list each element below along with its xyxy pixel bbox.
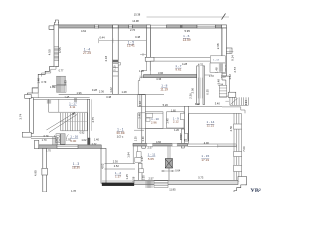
middle wall line y94.3 — [59, 93, 146, 95]
svg-text:УВ²: УВ² — [250, 188, 261, 193]
svg-text:1.37: 1.37 — [115, 175, 121, 179]
dim line 0.44/0.48 — [99, 40, 146, 42]
stair north wall thin double — [33, 97, 89, 99]
svg-text:4.18: 4.18 — [104, 55, 108, 61]
svg-text:2.68: 2.68 — [216, 43, 220, 49]
bathroom 1-10 box — [145, 112, 163, 129]
right wall step out — [222, 76, 229, 96]
bottom wall thin line above — [102, 180, 134, 182]
balcony rail lines — [233, 113, 235, 181]
stair treads — [61, 113, 90, 131]
svg-text:1.84: 1.84 — [127, 152, 131, 158]
svg-text:0.56: 0.56 — [179, 134, 183, 140]
small room 1-13 box — [210, 56, 225, 63]
svg-text:4.62: 4.62 — [81, 29, 87, 33]
wall x184.5 vertical — [185, 106, 189, 141]
door hatch band 1-16 — [60, 134, 65, 145]
svg-text:1.70: 1.70 — [42, 139, 47, 142]
svg-text:1.62: 1.62 — [109, 87, 113, 93]
svg-text:4.02: 4.02 — [100, 163, 104, 169]
duct room above bathrooms — [138, 94, 164, 96]
svg-text:4.00: 4.00 — [204, 141, 210, 145]
svg-text:4.28: 4.28 — [182, 62, 188, 66]
window 2 in top wall (room 1-5) — [128, 25, 132, 28]
corridor north line y106.3 — [138, 106, 222, 108]
wall 1-14 south double line — [188, 143, 237, 145]
svg-text:0.77: 0.77 — [59, 70, 64, 73]
interior wall VW2 — [146, 28, 150, 57]
pilaster on step — [32, 88, 38, 93]
svg-text:2.96: 2.96 — [151, 121, 157, 125]
zigzag wall below W3 — [138, 78, 143, 95]
svg-text:3.48: 3.48 — [106, 95, 112, 99]
west wall room 1-3 — [43, 148, 47, 192]
wall junction tick — [180, 25, 182, 28]
svg-text:3.00: 3.00 — [70, 139, 76, 143]
interior wall VW1 room1-4/1-5 — [113, 28, 119, 94]
svg-text:0.64: 0.64 — [175, 170, 180, 173]
stair west wall — [29, 98, 33, 134]
svg-text:1/2 c: 1/2 c — [117, 135, 124, 139]
hatch band above wall — [53, 137, 58, 145]
svg-text:1.45: 1.45 — [166, 118, 170, 124]
interior wall W3 gray band — [144, 75, 197, 78]
exterior wall top segment F — [182, 25, 197, 28]
exterior wall top segment C — [118, 25, 128, 28]
room 1-6 inner box lines — [150, 27, 221, 29]
stair NW pilaster — [25, 95, 32, 99]
window gap in south wall — [57, 145, 78, 149]
svg-text:4.55: 4.55 — [58, 47, 62, 53]
svg-text:1.48: 1.48 — [36, 78, 40, 84]
room 1-2 north double wall — [105, 163, 136, 165]
wall below VW2 foot — [146, 61, 148, 70]
svg-text:4.32: 4.32 — [198, 63, 204, 67]
center wall x101-106 — [101, 148, 106, 183]
corridor line continues right — [222, 106, 241, 108]
svg-text:18.30: 18.30 — [72, 166, 80, 170]
entrance hatch left — [146, 181, 152, 188]
room 1-2 east wall — [139, 163, 143, 181]
fixture box with circles — [56, 134, 60, 143]
interior wall junction VW1 head — [113, 25, 119, 28]
svg-text:5.73: 5.73 — [198, 176, 204, 180]
svg-text:27.25: 27.25 — [83, 51, 91, 55]
corridor west wall x141.8 — [142, 94, 146, 148]
pilaster west end — [35, 140, 39, 148]
svg-text:5.95: 5.95 — [184, 29, 190, 33]
window box in west wall — [42, 168, 48, 175]
stair bottom edge line — [61, 130, 90, 132]
svg-text:2.57: 2.57 — [148, 177, 154, 181]
svg-text:11.21: 11.21 — [207, 124, 215, 128]
svg-text:2.57: 2.57 — [147, 145, 153, 149]
svg-text:1.96: 1.96 — [76, 91, 82, 95]
svg-text:1.28: 1.28 — [121, 90, 127, 94]
corridor south line y128.5 — [145, 128, 184, 130]
dim arrow entry — [225, 100, 229, 102]
window hatch in left wall — [54, 47, 58, 61]
svg-text:4.75: 4.75 — [91, 117, 95, 123]
balcony crossbox 2 — [234, 152, 242, 157]
svg-text:7.06: 7.06 — [242, 146, 246, 152]
svg-text:1.55: 1.55 — [141, 175, 145, 181]
stair SW pilaster — [22, 132, 31, 137]
VW1 dark lintel block — [113, 60, 119, 62]
svg-text:4.90: 4.90 — [34, 170, 38, 176]
svg-text:2.52: 2.52 — [114, 164, 120, 168]
svg-text:13.41: 13.41 — [127, 44, 135, 48]
top wall opening with inner line — [150, 24, 166, 26]
dim tick vertical small — [37, 81, 39, 98]
room 1-17 south line — [49, 111, 90, 113]
lines joining vents — [52, 84, 57, 86]
svg-text:4.50: 4.50 — [48, 49, 52, 55]
exterior wall top segment B — [99, 25, 113, 28]
svg-text:1 - 11: 1 - 11 — [148, 152, 156, 156]
shaft left wall — [197, 66, 199, 105]
svg-text:1.02: 1.02 — [81, 138, 87, 142]
svg-text:9.61: 9.61 — [175, 67, 181, 71]
line below bath box — [134, 129, 144, 131]
dim tick right wall — [226, 51, 233, 53]
svg-text:0.92: 0.92 — [80, 132, 85, 135]
svg-text:9.14: 9.14 — [231, 55, 235, 61]
small boxes on strip — [181, 113, 185, 120]
svg-text:5.20: 5.20 — [163, 103, 169, 107]
svg-text:1.18: 1.18 — [138, 101, 142, 107]
svg-text:2.36: 2.36 — [99, 90, 105, 94]
dim line y17 long — [147, 16, 230, 18]
dim line top of balcony — [218, 145, 237, 147]
window 3 band top wall — [197, 25, 216, 28]
entrance steps lines — [154, 181, 168, 188]
VW1 side notch — [118, 63, 120, 66]
entry stair treads top right — [230, 97, 248, 105]
svg-text:5.10: 5.10 — [112, 65, 116, 71]
stepped wall inner line — [42, 66, 59, 76]
wall room1-6 south thin double — [154, 57, 222, 59]
bottom wall right step end — [238, 177, 247, 185]
balcony crossbox 3 — [234, 165, 242, 171]
window in top wall (room 1-4) — [94, 25, 98, 28]
vent band 2 hatched — [57, 85, 67, 92]
svg-text:3.74: 3.74 — [18, 113, 22, 119]
svg-text:1.78: 1.78 — [71, 190, 76, 192]
svg-text:3.45: 3.45 — [138, 113, 142, 119]
svg-text:2.76: 2.76 — [130, 28, 136, 32]
shaft right wall — [203, 66, 205, 105]
svg-text:1.72: 1.72 — [209, 75, 214, 78]
svg-text:2.06: 2.06 — [190, 87, 194, 93]
svg-text:4.94: 4.94 — [244, 100, 248, 106]
fixture in 1-10 — [146, 113, 153, 117]
svg-text:1.26: 1.26 — [174, 129, 179, 132]
balcony crossbox 1 — [234, 124, 242, 129]
svg-text:2.18: 2.18 — [221, 76, 226, 79]
interior wall junction VW2 head — [146, 25, 150, 28]
room 1-14 outline — [188, 113, 241, 144]
left exterior wall of room 1-4 — [54, 25, 59, 67]
bottom wall thick black — [102, 183, 134, 186]
svg-text:1.35: 1.35 — [135, 136, 138, 141]
hatch band in box2 — [219, 64, 222, 72]
door swing mark — [67, 134, 69, 138]
svg-text:1.25: 1.25 — [125, 174, 129, 180]
wall x181.3 short — [181, 129, 184, 148]
svg-text:0.79: 0.79 — [41, 81, 46, 84]
svg-text:1.92: 1.92 — [66, 138, 72, 142]
bathroom 1-9 box — [167, 112, 185, 128]
right exterior wall upper — [222, 28, 226, 76]
svg-text:2.30: 2.30 — [113, 159, 119, 163]
vent shaft crosshatch box — [165, 159, 172, 168]
svg-text:3.48: 3.48 — [195, 103, 200, 106]
svg-text:4.36: 4.36 — [156, 77, 162, 81]
small room box 2 — [210, 63, 225, 72]
exterior wall top segment E — [167, 25, 181, 28]
stepped wall to stair block — [28, 66, 54, 97]
svg-text:0.48: 0.48 — [135, 35, 141, 39]
svg-text:0.44: 0.44 — [99, 35, 105, 39]
wall between 1-11 and 1-15 — [167, 146, 169, 159]
entry steps bottom right — [234, 185, 247, 192]
stair south wall double — [31, 136, 56, 138]
line right of shaft y75 — [205, 74, 213, 76]
corner box at VW2 foot — [145, 57, 154, 61]
exterior wall top segment G — [216, 25, 222, 28]
svg-text:3.96: 3.96 — [158, 71, 164, 75]
svg-text:1.48: 1.48 — [214, 67, 218, 73]
VW1 window rungs — [113, 63, 118, 76]
svg-text:2.36: 2.36 — [189, 93, 193, 99]
room 1-17 west wall — [48, 99, 50, 112]
small steps box right — [219, 85, 226, 97]
stair east wall dark part — [88, 138, 90, 144]
window hatch right wall — [222, 66, 226, 74]
pilaster right wall top — [226, 48, 232, 53]
stair diagonal arrow — [47, 113, 76, 131]
svg-text:1 - 13: 1 - 13 — [213, 59, 219, 61]
top-left corner pilaster — [49, 20, 59, 29]
wall south of 1-16 band — [39, 145, 101, 149]
exterior wall top segment A — [59, 25, 95, 28]
wall south of corridor gray — [133, 143, 188, 146]
svg-text:3.40: 3.40 — [215, 102, 221, 106]
svg-text:0.55: 0.55 — [205, 89, 209, 95]
stair east wall — [88, 99, 90, 144]
bath zigzag wall — [132, 146, 134, 164]
top-right corner block — [222, 25, 227, 28]
svg-text:2.50: 2.50 — [229, 125, 233, 131]
svg-text:4.11: 4.11 — [70, 105, 76, 109]
door box on east wall — [139, 169, 144, 173]
svg-text:17.19: 17.19 — [201, 158, 209, 162]
dim 0.64 with arrows — [161, 170, 175, 172]
svg-text:15.38: 15.38 — [134, 13, 141, 17]
svg-text:2.57: 2.57 — [233, 67, 237, 73]
vent band 1 hatched — [57, 76, 66, 85]
svg-text:2.12: 2.12 — [173, 120, 179, 124]
chimney box above stairs — [228, 92, 236, 97]
room 1-7 inner lines — [149, 61, 151, 75]
dim arrow left of W3 — [140, 75, 144, 77]
svg-text:11.85: 11.85 — [169, 188, 176, 192]
stair mid landing line — [61, 121, 90, 123]
svg-text:1.37: 1.37 — [140, 156, 144, 162]
shaft interior hatch — [198, 78, 202, 99]
svg-text:11.19: 11.19 — [160, 87, 168, 91]
svg-text:0.28: 0.28 — [92, 88, 98, 92]
svg-text:13.59: 13.59 — [183, 38, 191, 42]
dim arrow left of VW2 — [140, 54, 146, 56]
svg-text:14.98: 14.98 — [132, 19, 139, 23]
svg-text:1.28: 1.28 — [139, 70, 144, 73]
svg-text:1.79: 1.79 — [50, 86, 55, 89]
door arrow bath — [145, 124, 147, 129]
svg-text:0.79: 0.79 — [44, 135, 49, 138]
svg-text:0.90: 0.90 — [142, 136, 145, 141]
svg-text:1.40: 1.40 — [94, 138, 100, 142]
door gap in south corridor wall — [147, 143, 153, 146]
svg-text:1.93: 1.93 — [64, 80, 68, 86]
exterior wall top segment D — [133, 25, 147, 28]
svg-text:5.65: 5.65 — [148, 157, 154, 161]
bottom wall gray band — [134, 180, 238, 184]
dim slash mark top right — [222, 14, 226, 20]
